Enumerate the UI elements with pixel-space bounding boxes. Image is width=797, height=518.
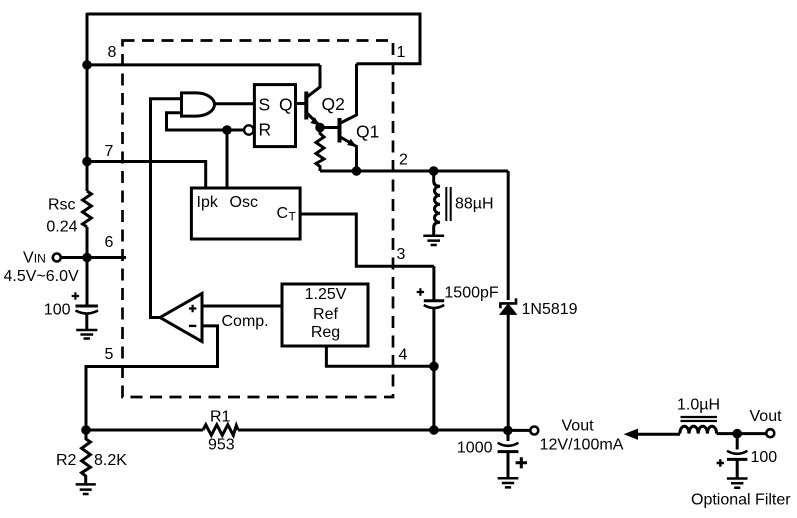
terminal Vout2 bbox=[766, 429, 774, 437]
svg-text:T: T bbox=[289, 210, 297, 224]
svg-text:Q1: Q1 bbox=[356, 122, 379, 142]
svg-text:1: 1 bbox=[397, 44, 406, 61]
inductor L2 core lines bbox=[681, 417, 718, 421]
label Q1 bbox=[356, 122, 379, 142]
inductor L1 core lines bbox=[446, 187, 450, 221]
capacitor Cf 100 curved plate bbox=[727, 434, 747, 454]
node Q2 emitter / Q1 base junction bbox=[315, 123, 325, 133]
label CT bbox=[277, 205, 297, 224]
transistor Q1 base bar bbox=[338, 118, 342, 143]
svg-text:Vout: Vout bbox=[562, 418, 595, 435]
label R1 bbox=[210, 409, 231, 426]
transistor Q2 emitter bbox=[306, 113, 320, 127]
svg-text:Ref: Ref bbox=[313, 306, 338, 323]
label Ipk bbox=[197, 194, 219, 211]
wire Cin to ground bbox=[85, 314, 88, 331]
transistor Q1 collector bbox=[340, 64, 357, 124]
capacitor CT 1500pF top plate bbox=[424, 299, 444, 302]
svg-text:1.0µH: 1.0µH bbox=[677, 397, 720, 414]
ground below Cout bbox=[498, 478, 519, 487]
label 12V/100mA bbox=[540, 436, 624, 453]
capacitor Cout 1000 curved plate bbox=[498, 430, 519, 445]
svg-text:6: 6 bbox=[105, 234, 114, 251]
value 100 input cap bbox=[44, 302, 71, 319]
wire output node to Vout terminal bbox=[508, 429, 530, 432]
wire VIN terminal to rail bbox=[61, 256, 88, 259]
inductor L1 88uH winding bbox=[434, 171, 440, 236]
svg-text:88µH: 88µH bbox=[455, 196, 494, 213]
node R1 left junction bbox=[81, 425, 91, 435]
node Q1 emitter on pin 2 line bbox=[352, 166, 362, 176]
inductor L2 1.0uH winding bbox=[680, 426, 717, 433]
latch R inverter bubble bbox=[244, 125, 253, 134]
comparator minus input mark bbox=[189, 325, 196, 327]
svg-text:Q: Q bbox=[279, 95, 293, 115]
node pin 7 junction bbox=[82, 157, 92, 167]
wire pin 8 to Q2 collector bbox=[87, 63, 320, 66]
transistor Q2 collector bbox=[306, 65, 320, 98]
ground below Cin bbox=[76, 330, 97, 339]
svg-text:100: 100 bbox=[44, 302, 71, 319]
svg-text:Osc: Osc bbox=[230, 194, 258, 211]
svg-text:C: C bbox=[277, 205, 289, 222]
svg-text:4: 4 bbox=[399, 347, 408, 364]
capacitor Cf 100 bottom plate bbox=[727, 458, 747, 461]
wire ref output to comparator plus bbox=[202, 305, 282, 308]
label 88uH bbox=[455, 196, 494, 213]
wire Cout to ground bbox=[507, 452, 510, 478]
latch label S bbox=[259, 95, 271, 115]
wire pin 7 to Ipk input bbox=[87, 162, 206, 189]
wire ref ground to pin 4 bbox=[326, 346, 434, 366]
label Q2 bbox=[322, 94, 345, 114]
wire 1500pF bottom through pin4 to R1 line bbox=[432, 308, 435, 430]
wire R1 line bbox=[86, 429, 508, 432]
pin label 3 bbox=[397, 246, 406, 263]
svg-text:0.24: 0.24 bbox=[46, 219, 77, 236]
svg-text:1000: 1000 bbox=[457, 440, 493, 457]
svg-text:Vout: Vout bbox=[750, 408, 783, 425]
label R2 bbox=[56, 452, 77, 469]
svg-text:100: 100 bbox=[751, 449, 778, 466]
plus sign 1500pF bbox=[417, 288, 424, 295]
label 1N5819 bbox=[522, 301, 578, 318]
node inductor junction pin 2 bbox=[429, 166, 439, 176]
ground below R2 bbox=[76, 484, 96, 494]
node pin 4 junction bbox=[429, 362, 439, 372]
label VIN bbox=[23, 250, 46, 267]
wire pin 2 line bbox=[320, 170, 508, 173]
comparator plus input mark bbox=[189, 305, 196, 312]
ground below L1 bbox=[423, 236, 444, 245]
label 1.0uH bbox=[677, 397, 720, 414]
terminal VIN bbox=[53, 254, 61, 262]
node pin4 to R1 junction bbox=[429, 425, 439, 435]
svg-text:Ipk: Ipk bbox=[197, 194, 219, 211]
wire arrow to filter inductor bbox=[636, 433, 680, 436]
transistor Q1 emitter arrow bbox=[348, 140, 355, 147]
AND gate U1 bbox=[182, 93, 215, 116]
capacitor CT 1500pF curved plate bbox=[424, 305, 444, 308]
svg-text:2: 2 bbox=[399, 152, 408, 169]
diode D1 1N5819 wire from pin 2 bbox=[507, 171, 510, 300]
node oscillator R junction bbox=[222, 125, 232, 135]
capacitor Cin 100 top plate bbox=[76, 305, 99, 308]
label Vout bbox=[562, 418, 595, 435]
svg-text:Rsc: Rsc bbox=[48, 197, 76, 214]
wire CT output to pin 3 bbox=[300, 214, 434, 266]
dashed IC boundary bbox=[123, 41, 394, 398]
label Optional Filter bbox=[691, 492, 791, 509]
resistor Rsc bbox=[83, 191, 92, 227]
wire VIN left rail lower bbox=[86, 227, 89, 306]
label Comp. bbox=[222, 313, 269, 330]
svg-text:Optional Filter: Optional Filter bbox=[691, 492, 791, 509]
plus sign Cout bbox=[516, 457, 527, 468]
node filter junction bbox=[732, 429, 742, 439]
pin label 6 bbox=[105, 234, 114, 251]
value 1000 bbox=[457, 440, 493, 457]
svg-text:R1: R1 bbox=[210, 409, 231, 426]
svg-text:Comp.: Comp. bbox=[222, 313, 269, 330]
wire VIN left rail upper bbox=[86, 13, 89, 191]
value 100 filter bbox=[751, 449, 778, 466]
label 4.5V~6.0V bbox=[4, 268, 80, 285]
label Rsc bbox=[48, 197, 76, 214]
capacitor CT 1500pF wire from pin 3 bbox=[432, 266, 435, 299]
svg-text:Reg: Reg bbox=[311, 324, 340, 341]
wire diode to output node bbox=[507, 314, 510, 430]
pin label 2 bbox=[399, 152, 408, 169]
resistor R2 bbox=[82, 430, 91, 484]
svg-text:4.5V~6.0V: 4.5V~6.0V bbox=[4, 268, 80, 285]
wire oscillator to AND input B bbox=[167, 113, 228, 130]
value 953 bbox=[208, 437, 235, 454]
wire junction to Q1 base bbox=[320, 126, 338, 129]
svg-text:7: 7 bbox=[105, 143, 114, 160]
terminal Vout bbox=[530, 427, 538, 435]
svg-text:V: V bbox=[23, 250, 34, 267]
svg-text:12V/100mA: 12V/100mA bbox=[540, 436, 624, 453]
wire Cf to ground bbox=[736, 459, 739, 478]
plus sign Cf bbox=[717, 459, 724, 466]
svg-text:R2: R2 bbox=[56, 452, 77, 469]
pin label 4 bbox=[399, 347, 408, 364]
svg-text:8.2K: 8.2K bbox=[94, 452, 127, 469]
svg-text:953: 953 bbox=[208, 437, 235, 454]
svg-text:IN: IN bbox=[34, 252, 46, 266]
capacitor Cin 100 curved plate bbox=[76, 311, 99, 314]
svg-text:5: 5 bbox=[105, 346, 114, 363]
svg-text:1.25V: 1.25V bbox=[305, 286, 347, 303]
svg-text:Q2: Q2 bbox=[322, 94, 345, 114]
label 1.25V bbox=[305, 286, 347, 303]
svg-text:S: S bbox=[259, 95, 271, 115]
transistor Q2 emitter arrow bbox=[311, 118, 318, 125]
wire comparator minus to pin 5 feedback bbox=[86, 326, 218, 430]
wire comparator output to AND input A bbox=[151, 99, 182, 318]
label Vout right bbox=[750, 408, 783, 425]
svg-text:1500pF: 1500pF bbox=[444, 285, 498, 302]
wire AND output to latch S bbox=[215, 102, 255, 105]
svg-text:R: R bbox=[259, 120, 272, 140]
label Osc bbox=[230, 194, 258, 211]
resistor Q1 base-emitter bbox=[316, 131, 324, 171]
diode D1 triangle bbox=[500, 304, 516, 314]
diode D1 schottky cathode bar bbox=[500, 298, 516, 308]
wire junction to R bubble bbox=[227, 129, 244, 132]
oscillator box Ipk Osc bbox=[191, 188, 300, 239]
wire pin 6 stub bbox=[87, 256, 126, 259]
wire L2 to Vout2 terminal bbox=[717, 432, 767, 435]
pin label 5 bbox=[105, 346, 114, 363]
ground below Cf bbox=[727, 479, 748, 488]
comparator triangle bbox=[160, 294, 202, 342]
wire top loop from pin 8 rail to switch collector bbox=[87, 14, 420, 64]
transistor Q2 base bar bbox=[304, 92, 308, 120]
label Ref bbox=[313, 306, 338, 323]
wire latch Q to Q2 base bbox=[296, 102, 306, 105]
pin label 7 bbox=[105, 143, 114, 160]
plus sign Cin bbox=[72, 292, 79, 299]
capacitor Cout 1000 bottom plate bbox=[498, 450, 519, 453]
latch label Q bbox=[279, 95, 293, 115]
svg-text:8: 8 bbox=[108, 44, 117, 61]
transistor Q1 emitter bbox=[340, 137, 357, 172]
svg-text:1N5819: 1N5819 bbox=[522, 301, 578, 318]
node VIN junction bbox=[82, 253, 92, 263]
value 8.2K bbox=[94, 452, 127, 469]
value 0.24 bbox=[46, 219, 77, 236]
latch label R bbox=[259, 120, 272, 140]
reference regulator box 1.25V Ref Reg bbox=[282, 284, 368, 346]
node output junction bbox=[503, 426, 513, 436]
latch box bbox=[254, 85, 295, 147]
pin label 1 bbox=[397, 44, 406, 61]
arrow to optional filter bbox=[625, 429, 638, 439]
value 1500pF bbox=[444, 285, 498, 302]
svg-text:3: 3 bbox=[397, 246, 406, 263]
label Reg bbox=[311, 324, 340, 341]
node pin 8 junction bbox=[82, 60, 92, 70]
resistor R1 bbox=[203, 425, 238, 436]
pin label 8 bbox=[108, 44, 117, 61]
wire oscillator vertical bbox=[226, 130, 229, 189]
